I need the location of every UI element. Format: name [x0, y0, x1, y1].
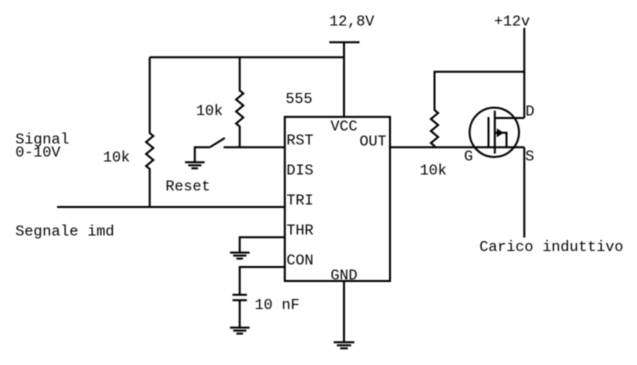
svg-text:DIS: DIS — [287, 163, 314, 180]
svg-text:S: S — [525, 149, 534, 166]
svg-text:Carico induttivo: Carico induttivo — [479, 239, 623, 256]
svg-text:10 nF: 10 nF — [255, 297, 300, 314]
svg-text:+12v: +12v — [494, 14, 530, 31]
svg-text:Segnale imd: Segnale imd — [15, 224, 114, 241]
svg-text:G: G — [464, 149, 473, 166]
svg-text:TRI: TRI — [287, 193, 314, 210]
svg-text:CON: CON — [287, 253, 314, 270]
svg-text:10k: 10k — [420, 163, 447, 180]
svg-text:VCC: VCC — [331, 119, 358, 136]
svg-text:RST: RST — [287, 133, 314, 150]
svg-text:D: D — [526, 103, 535, 120]
svg-text:555: 555 — [286, 91, 313, 108]
svg-text:12,8V: 12,8V — [329, 14, 374, 31]
svg-text:THR: THR — [287, 223, 314, 240]
svg-text:10k: 10k — [103, 150, 130, 167]
svg-text:GND: GND — [331, 267, 358, 284]
svg-text:0-10V: 0-10V — [15, 145, 60, 162]
svg-text:Reset: Reset — [166, 179, 211, 196]
svg-text:OUT: OUT — [360, 133, 387, 150]
svg-text:10k: 10k — [196, 103, 223, 120]
